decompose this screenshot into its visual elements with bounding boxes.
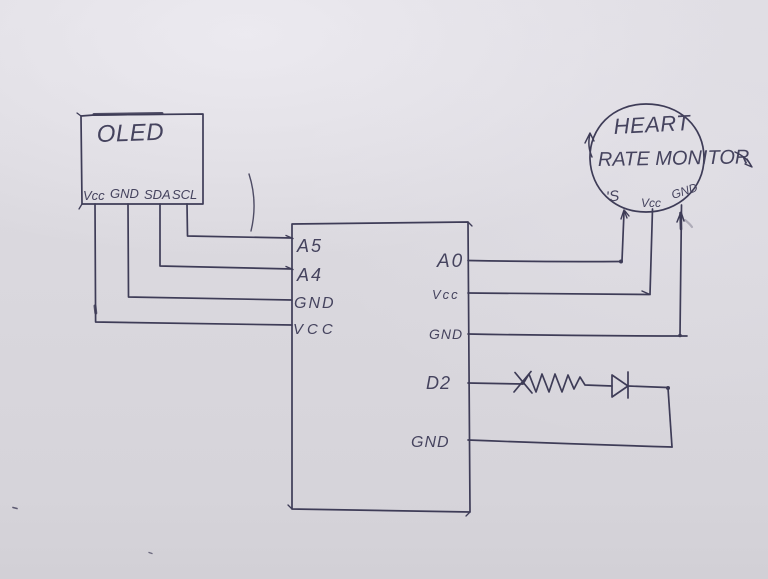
svg-text:Vcc: Vcc [641,196,661,210]
svg-text:SDA: SDA [144,187,171,202]
wire S vertical [622,212,624,261]
microcontroller box [292,222,470,512]
junction GND [678,334,682,338]
ink speck 1 [13,508,17,509]
svg-text:Vcc: Vcc [83,188,105,203]
wire OLED SDA to A4 [160,204,292,269]
svg-text:Vcc: Vcc [432,287,460,302]
ink speck 2 [149,553,152,554]
wire GND bottom return [468,440,672,447]
diode D1 [612,375,628,397]
junction corner [666,386,670,390]
svg-text:'S: 'S [605,187,620,206]
svg-text:GND: GND [429,326,463,342]
junction A0/S [619,260,623,264]
OLED module box [81,114,203,204]
svg-text:A4: A4 [296,265,323,285]
arrowhead GND [679,213,682,229]
wire sensor Vcc vertical [650,209,653,295]
svg-text:RATE MONITOR: RATE MONITOR [598,146,750,171]
wire Vcc to sensor Vcc [468,293,649,295]
wire LED return vertical [668,388,672,447]
wire diode to corner [628,386,667,388]
svg-text:SCL: SCL [172,187,197,202]
svg-text:A5: A5 [296,236,323,256]
svg-text:A0: A0 [436,251,464,272]
svg-text:HEART: HEART [613,110,692,139]
svg-text:GND: GND [110,186,139,201]
flourish on R [735,152,751,166]
svg-text:VCC: VCC [293,321,337,338]
svg-text:GND: GND [411,434,450,451]
arrowhead S [621,210,627,219]
heart rate monitor circle U2 [590,104,704,212]
wire OLED SCL to A5 [187,204,292,238]
wire D2 to resistor [468,383,523,384]
wire A0 to sensor S [468,261,621,262]
svg-text:GND: GND [294,295,336,312]
wire OLED Vcc to VCC [95,204,292,325]
wire sensor GND vertical [680,205,682,336]
arrow mark circle left [589,134,592,157]
resistor R1 [515,373,532,394]
stray pen curve [249,174,254,231]
svg-text:OLED: OLED [96,119,164,148]
wire GND to sensor GND [468,334,687,336]
wire OLED GND to GND [128,204,292,300]
svg-text:D2: D2 [426,373,451,393]
